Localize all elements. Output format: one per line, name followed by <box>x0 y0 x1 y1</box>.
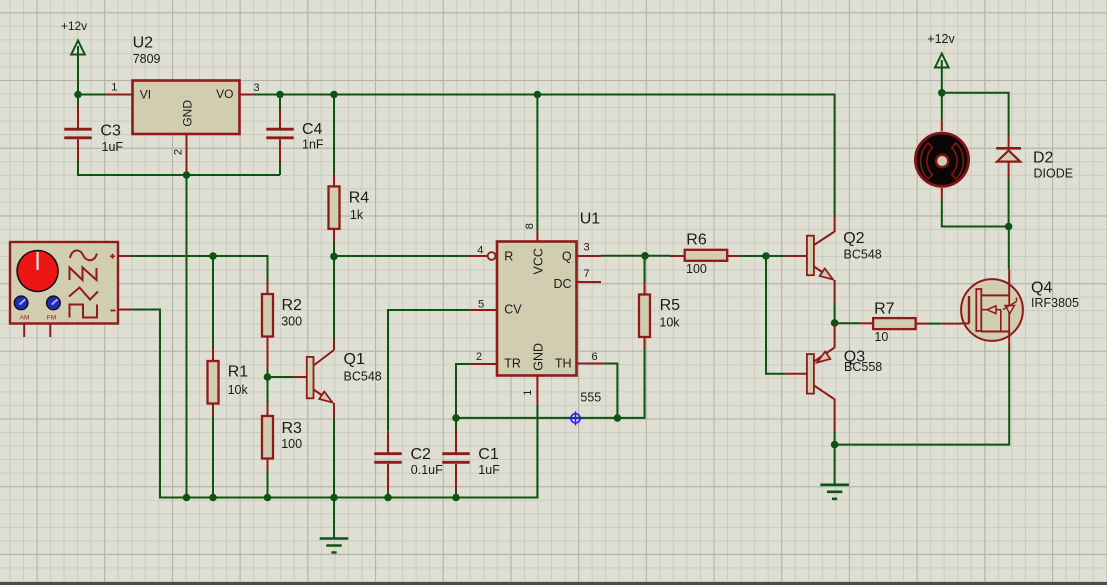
node TH rail418 <box>614 414 622 422</box>
wire TH down <box>604 364 618 418</box>
U1 pin 4 R (inverted) <box>469 244 496 260</box>
wire node to C3 <box>77 95 79 108</box>
resistor R5 10k <box>639 282 680 348</box>
svg-text:100: 100 <box>281 437 302 451</box>
node Q3c / ground / Q4 source <box>831 441 839 449</box>
svg-text:300: 300 <box>281 315 302 329</box>
node +12v right <box>938 89 946 97</box>
svg-text:6: 6 <box>591 351 597 363</box>
svg-text:Q: Q <box>562 250 572 264</box>
svg-text:VCC: VCC <box>532 248 546 274</box>
wire base node to Q1 <box>268 376 294 378</box>
U1 pin 3 Q <box>577 242 602 257</box>
power symbol +12v left <box>61 19 87 94</box>
wire top rail to C4 <box>279 95 281 112</box>
svg-text:R3: R3 <box>282 420 303 437</box>
svg-text:R7: R7 <box>874 301 895 318</box>
U1 pin 8 VCC <box>524 223 537 241</box>
wire R2 to base node <box>267 370 269 377</box>
wire Q to R6 <box>601 255 670 257</box>
svg-text:3: 3 <box>253 82 259 94</box>
svg-text:7809: 7809 <box>133 52 161 66</box>
svg-text:VI: VI <box>140 87 151 101</box>
wire base node to R3 <box>267 377 269 403</box>
svg-text:C3: C3 <box>100 123 121 140</box>
wire node to Q4 source <box>835 349 1010 445</box>
bottom window strip <box>0 582 1107 585</box>
node Q2 base / Q3 base <box>762 252 770 260</box>
wire D2 anode down <box>1008 177 1010 226</box>
transistor Q1 BC548 <box>294 340 382 418</box>
node rail x186 <box>183 494 191 502</box>
wire node to Q4 drain <box>1008 227 1010 270</box>
wire motor bottom <box>942 199 1009 227</box>
svg-text:IRF3805: IRF3805 <box>1031 296 1079 310</box>
wire VCC to rail <box>536 95 538 231</box>
resistor R2 300 <box>262 281 302 370</box>
resistor R6 100 <box>670 232 740 276</box>
svg-text:TR: TR <box>504 356 521 370</box>
svg-text:FM: FM <box>47 315 56 322</box>
svg-text:C4: C4 <box>302 121 323 138</box>
svg-text:R4: R4 <box>349 190 370 207</box>
wire pin2 to junction <box>186 171 188 175</box>
svg-text:C1: C1 <box>478 446 499 463</box>
wire generator+ to R2 <box>131 256 267 281</box>
svg-text:3: 3 <box>583 242 589 254</box>
wire C2 to rail <box>387 492 389 498</box>
regulator U2 7809 <box>133 34 240 134</box>
node U2 pin2 / rail-175 junction <box>183 171 191 179</box>
wire C1 to rail <box>455 492 457 498</box>
wire C4 to rail y175 <box>279 163 281 176</box>
node Q1 base / R2 / R3 <box>264 373 272 381</box>
origin marker (blue crosshair) <box>568 411 582 425</box>
wire vertical x186 to bottom rail <box>186 175 188 498</box>
capacitor C2 0.1uF <box>374 431 443 491</box>
U2 pin 1 <box>105 82 132 95</box>
wire GND pin down <box>536 404 538 497</box>
wire Q1 emitter down <box>333 418 335 497</box>
U1 pin 5 CV <box>469 299 497 311</box>
motor <box>915 120 968 199</box>
resistor R3 100 <box>262 403 302 471</box>
U1 pin 7 DC <box>577 268 602 282</box>
node C4 top <box>276 91 284 99</box>
node motor/D2/Q4 drain <box>1005 223 1013 231</box>
wire R1 to bottom rail <box>212 417 214 498</box>
U2 pin 2 <box>172 135 186 172</box>
svg-text:+12v: +12v <box>927 32 955 46</box>
wire R7 to Q4 gate <box>927 323 941 325</box>
svg-text:TH: TH <box>555 356 572 370</box>
wire to ground symbol right <box>834 445 836 484</box>
resistor R1 10k <box>208 348 249 417</box>
ground <box>820 485 849 499</box>
ground <box>320 539 349 553</box>
U1 pin 1 GND <box>522 376 537 405</box>
resistor R4 1k <box>329 174 370 242</box>
svg-text:R5: R5 <box>660 297 681 314</box>
capacitor C1 1uF <box>442 418 500 492</box>
node Q2e/Q3e/R7 <box>831 319 839 327</box>
wire 9V top rail <box>254 95 835 216</box>
svg-text:+12v: +12v <box>61 19 87 33</box>
wire node to R7 <box>835 322 860 324</box>
svg-text:10k: 10k <box>228 383 249 397</box>
wire R6 to base node <box>740 255 767 257</box>
555 timer U1 <box>497 211 601 405</box>
wire to Q2 base <box>766 255 786 257</box>
U1 pin 2 TR <box>470 351 498 364</box>
node rail C1 <box>452 494 460 502</box>
wire +12v to U2 pin1 <box>78 94 105 96</box>
wire R4 to node <box>333 242 335 256</box>
svg-text:GND: GND <box>180 100 194 127</box>
wire Q3 collector to node <box>834 432 836 445</box>
wire R5 to Q node <box>644 256 646 282</box>
svg-text:VO: VO <box>216 87 233 101</box>
svg-text:1uF: 1uF <box>478 463 500 477</box>
svg-text:1: 1 <box>111 82 117 94</box>
transistor Q2 BC548 <box>786 215 882 302</box>
wire to R1 <box>212 256 214 348</box>
wire to Q3 base <box>766 256 786 374</box>
svg-text:Q4: Q4 <box>1031 280 1052 297</box>
svg-text:555: 555 <box>580 391 601 405</box>
svg-text:AM: AM <box>20 315 30 322</box>
U2 pin 3 <box>240 82 260 95</box>
transistor Q3 BC558 <box>786 323 883 432</box>
diode D2 <box>996 136 1073 180</box>
node rail R3 <box>264 494 272 502</box>
svg-text:1nF: 1nF <box>302 138 324 152</box>
svg-text:C2: C2 <box>411 446 432 463</box>
svg-text:R: R <box>504 249 513 263</box>
svg-text:U1: U1 <box>580 211 601 228</box>
wire Q1 collector up <box>333 256 335 340</box>
svg-text:DIODE: DIODE <box>1034 166 1074 180</box>
wire +12v to D2 cathode <box>942 93 1009 136</box>
svg-text:BC548: BC548 <box>844 247 882 261</box>
svg-text:1: 1 <box>522 390 534 396</box>
svg-text:R2: R2 <box>282 297 303 314</box>
svg-text:DC: DC <box>553 277 571 291</box>
node R4 / Q1 collector / 555 R <box>330 253 338 261</box>
node rail C2 <box>384 494 392 502</box>
svg-text:2: 2 <box>172 149 184 155</box>
svg-text:D2: D2 <box>1033 150 1054 167</box>
svg-text:Q1: Q1 <box>344 351 365 368</box>
svg-text:1uF: 1uF <box>102 140 124 154</box>
wire C3 bottom rail y175 <box>78 161 280 175</box>
svg-text:1k: 1k <box>350 208 364 222</box>
svg-text:10k: 10k <box>659 316 680 330</box>
svg-text:CV: CV <box>504 302 522 316</box>
svg-text:4: 4 <box>477 244 483 256</box>
wire TR down <box>456 364 470 418</box>
svg-text:Q2: Q2 <box>843 230 864 247</box>
svg-text:10: 10 <box>874 330 888 344</box>
svg-text:0.1uF: 0.1uF <box>411 463 443 477</box>
svg-text:2: 2 <box>476 351 482 363</box>
Q4 gate pin <box>941 323 961 325</box>
capacitor C4 <box>266 112 324 163</box>
svg-text:U2: U2 <box>133 34 154 51</box>
wire node to 555 R pin <box>334 255 469 257</box>
wire generator- / ground bottom rail <box>131 310 537 498</box>
signal generator <box>10 242 131 337</box>
MOSFET Q4 IRF3805 <box>961 269 1079 349</box>
node TR / C1 / rail418 <box>452 414 460 422</box>
svg-text:GND: GND <box>532 343 546 371</box>
wire to ground symbol left <box>333 498 335 539</box>
node rail ground/Q1e <box>330 494 338 502</box>
svg-text:BC548: BC548 <box>344 370 382 384</box>
svg-text:7: 7 <box>583 268 589 280</box>
svg-text:BC558: BC558 <box>844 360 882 374</box>
node Q / R5 / R6 <box>641 252 649 260</box>
svg-text:R6: R6 <box>686 232 707 249</box>
node R1 top <box>209 252 217 260</box>
wire +12v to motor <box>941 93 943 121</box>
power symbol +12v right <box>927 32 955 93</box>
wire rail y418 to R5 <box>456 348 645 418</box>
svg-text:R1: R1 <box>228 364 249 381</box>
node 555 VCC <box>534 91 542 99</box>
node +12v/C3/U2-VI junction <box>74 91 82 99</box>
svg-text:5: 5 <box>478 299 484 311</box>
node R4 top <box>330 91 338 99</box>
U1 pin 6 TH <box>577 351 604 364</box>
wire Q2 emitter to node <box>834 302 836 323</box>
svg-text:8: 8 <box>524 223 536 229</box>
capacitor C3 <box>64 107 123 161</box>
resistor R7 10 <box>860 301 928 345</box>
wire R3 to bottom rail <box>267 471 269 498</box>
svg-text:100: 100 <box>686 262 707 276</box>
wire CV to C2 <box>388 310 469 431</box>
node rail R1 <box>209 494 217 502</box>
wire rail to R4 <box>333 95 335 174</box>
